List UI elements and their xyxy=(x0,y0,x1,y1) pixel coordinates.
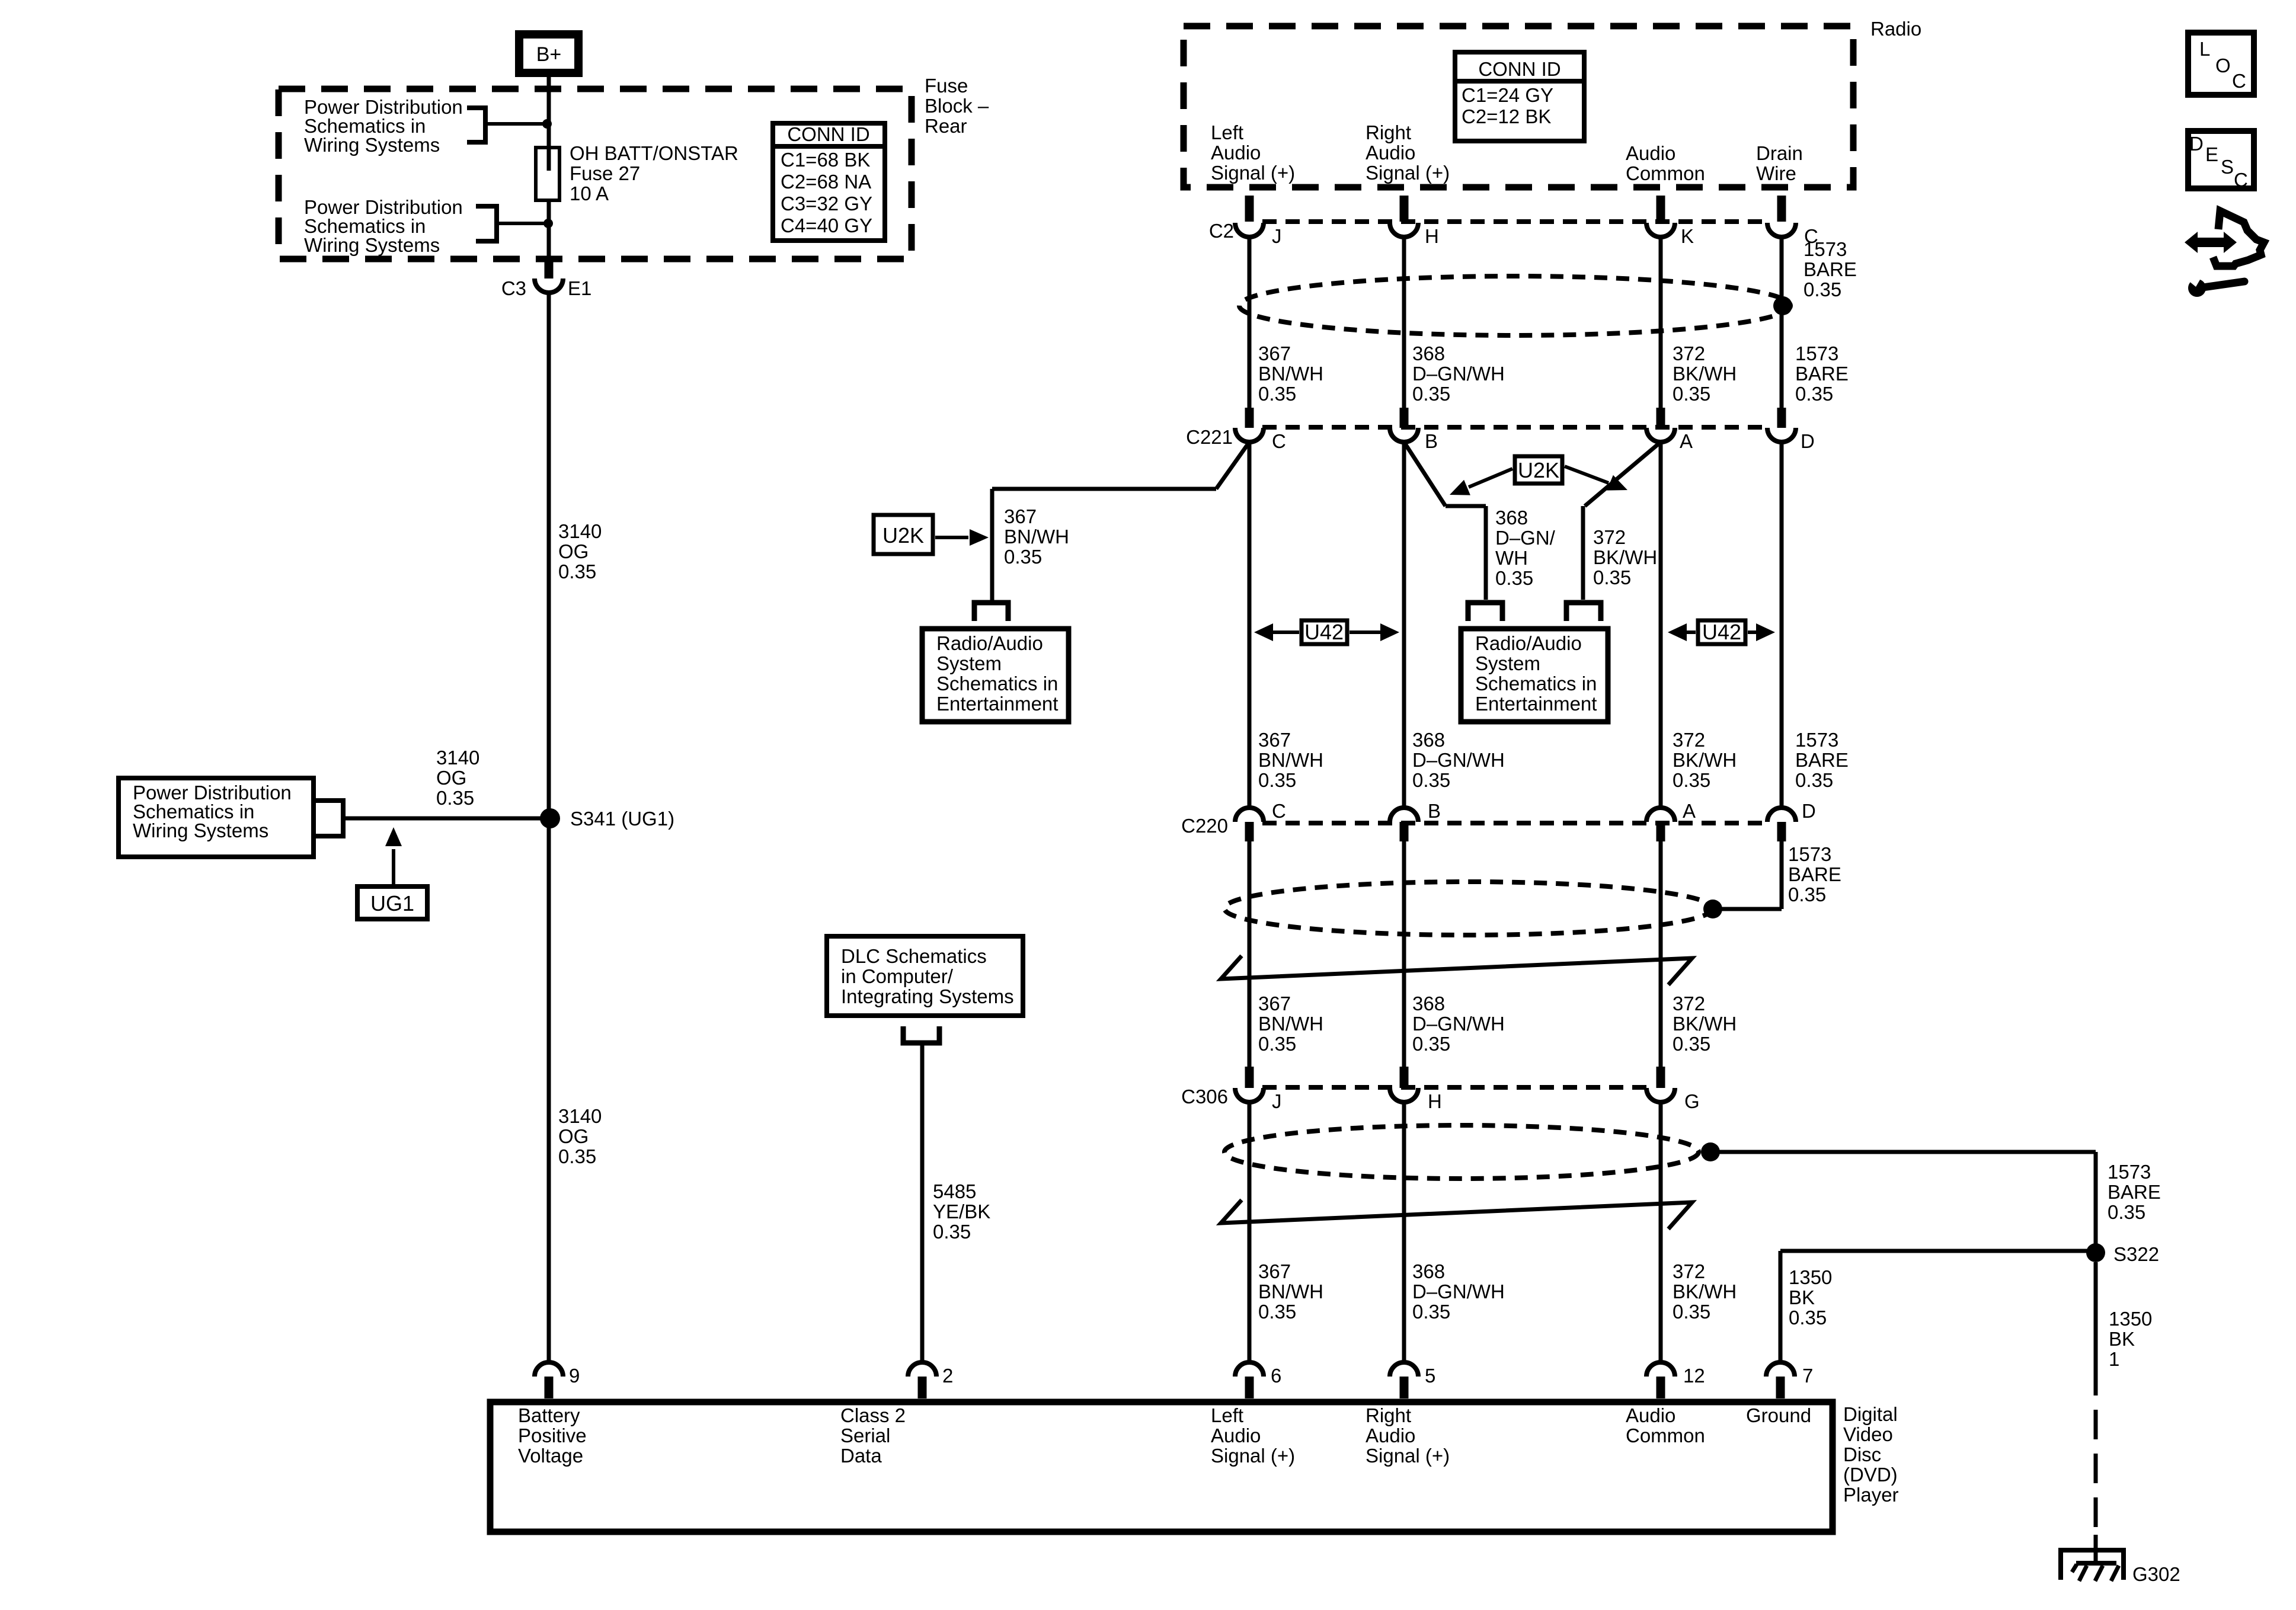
svg-text:372: 372 xyxy=(1673,993,1705,1014)
svg-text:Wiring Systems: Wiring Systems xyxy=(304,134,440,156)
svg-text:BN/WH: BN/WH xyxy=(1258,749,1323,771)
svg-text:(DVD): (DVD) xyxy=(1843,1464,1898,1486)
svg-text:1573: 1573 xyxy=(2108,1161,2151,1183)
svg-text:OG: OG xyxy=(436,767,466,789)
svg-text:J: J xyxy=(1272,1090,1282,1112)
svg-text:Left: Left xyxy=(1211,121,1243,143)
svg-text:5: 5 xyxy=(1425,1365,1435,1387)
svg-text:1350: 1350 xyxy=(1789,1266,1832,1288)
svg-text:System: System xyxy=(936,652,1002,674)
svg-text:Data: Data xyxy=(840,1445,882,1467)
svg-text:E1: E1 xyxy=(568,277,591,299)
svg-text:D: D xyxy=(1802,800,1816,822)
svg-text:BK: BK xyxy=(1789,1286,1815,1308)
svg-text:C306: C306 xyxy=(1181,1086,1228,1108)
svg-text:U2K: U2K xyxy=(1518,458,1559,482)
svg-text:Disc: Disc xyxy=(1843,1443,1881,1465)
svg-text:Common: Common xyxy=(1626,1425,1705,1446)
svg-text:D–GN/WH: D–GN/WH xyxy=(1412,749,1505,771)
svg-text:0.35: 0.35 xyxy=(1673,383,1710,405)
svg-text:Integrating Systems: Integrating Systems xyxy=(841,985,1014,1007)
svg-text:0.35: 0.35 xyxy=(1673,769,1710,791)
svg-text:C: C xyxy=(1272,800,1286,822)
svg-text:0.35: 0.35 xyxy=(2108,1201,2145,1223)
svg-text:D: D xyxy=(1801,430,1815,452)
svg-text:Fuse 27: Fuse 27 xyxy=(570,162,640,184)
svg-text:D–GN/WH: D–GN/WH xyxy=(1412,1281,1505,1302)
svg-text:C1=24 GY: C1=24 GY xyxy=(1462,84,1553,106)
svg-text:3140: 3140 xyxy=(558,520,602,542)
svg-text:C221: C221 xyxy=(1186,426,1233,448)
svg-text:U42: U42 xyxy=(1304,620,1344,644)
svg-text:Class 2: Class 2 xyxy=(840,1404,906,1426)
svg-text:Signal (+): Signal (+) xyxy=(1211,162,1295,184)
svg-text:Schematics in: Schematics in xyxy=(1475,673,1597,694)
svg-text:YE/BK: YE/BK xyxy=(933,1201,990,1222)
svg-text:D: D xyxy=(2189,133,2204,155)
svg-text:C2=68 NA: C2=68 NA xyxy=(781,171,871,193)
svg-text:Radio/Audio: Radio/Audio xyxy=(1475,632,1582,654)
svg-text:S: S xyxy=(2221,156,2234,178)
svg-text:10 A: 10 A xyxy=(570,183,609,204)
svg-text:0.35: 0.35 xyxy=(1258,1301,1296,1323)
svg-text:0.35: 0.35 xyxy=(1412,1301,1450,1323)
svg-text:K: K xyxy=(1681,225,1694,247)
svg-text:D–GN/: D–GN/ xyxy=(1495,527,1556,549)
svg-text:C: C xyxy=(2234,169,2248,191)
svg-text:G302: G302 xyxy=(2132,1563,2180,1585)
svg-text:C4=40 GY: C4=40 GY xyxy=(781,215,872,236)
svg-text:Battery: Battery xyxy=(518,1404,580,1426)
svg-text:H: H xyxy=(1428,1090,1442,1112)
svg-text:B: B xyxy=(1428,800,1441,822)
svg-text:L: L xyxy=(2199,38,2210,60)
svg-text:Common: Common xyxy=(1626,162,1705,184)
svg-text:0.35: 0.35 xyxy=(1795,383,1833,405)
svg-text:BARE: BARE xyxy=(1788,863,1841,885)
svg-text:372: 372 xyxy=(1593,526,1626,548)
svg-text:C3=32 GY: C3=32 GY xyxy=(781,193,872,215)
svg-text:BN/WH: BN/WH xyxy=(1258,1281,1323,1302)
svg-text:Audio: Audio xyxy=(1626,1404,1675,1426)
svg-text:9: 9 xyxy=(569,1365,580,1387)
svg-text:S322: S322 xyxy=(2113,1243,2159,1265)
svg-text:Rear: Rear xyxy=(925,115,967,137)
svg-text:Radio: Radio xyxy=(1870,18,1921,40)
svg-text:Wire: Wire xyxy=(1756,162,1796,184)
svg-text:C220: C220 xyxy=(1181,815,1228,837)
svg-text:0.35: 0.35 xyxy=(1412,383,1450,405)
svg-text:C: C xyxy=(1272,430,1286,452)
svg-text:Ground: Ground xyxy=(1746,1404,1811,1426)
svg-text:U2K: U2K xyxy=(882,523,924,548)
svg-text:368: 368 xyxy=(1412,1260,1445,1282)
svg-text:Signal (+): Signal (+) xyxy=(1366,1445,1450,1467)
svg-text:BARE: BARE xyxy=(1795,749,1849,771)
svg-text:Signal (+): Signal (+) xyxy=(1366,162,1450,184)
svg-text:WH: WH xyxy=(1495,547,1528,569)
svg-text:367: 367 xyxy=(1258,343,1291,364)
svg-text:367: 367 xyxy=(1258,1260,1291,1282)
svg-text:B+: B+ xyxy=(536,43,562,66)
svg-text:B: B xyxy=(1425,430,1438,452)
svg-text:372: 372 xyxy=(1673,1260,1705,1282)
svg-text:0.35: 0.35 xyxy=(1803,279,1841,300)
svg-text:G: G xyxy=(1684,1090,1700,1112)
svg-text:Audio: Audio xyxy=(1211,142,1261,164)
svg-text:Audio: Audio xyxy=(1366,142,1415,164)
svg-text:1573: 1573 xyxy=(1795,343,1838,364)
svg-text:BK: BK xyxy=(2109,1328,2135,1350)
svg-text:BK/WH: BK/WH xyxy=(1673,1013,1737,1035)
svg-text:0.35: 0.35 xyxy=(1593,566,1631,588)
svg-text:1350: 1350 xyxy=(2109,1308,2152,1330)
svg-text:368: 368 xyxy=(1495,507,1528,529)
svg-text:368: 368 xyxy=(1412,993,1445,1014)
svg-text:Right: Right xyxy=(1366,121,1411,143)
svg-text:Wiring Systems: Wiring Systems xyxy=(133,820,268,841)
svg-text:OG: OG xyxy=(558,540,589,562)
svg-text:BK/WH: BK/WH xyxy=(1673,1281,1737,1302)
svg-text:0.35: 0.35 xyxy=(1673,1033,1710,1055)
svg-text:0.35: 0.35 xyxy=(436,787,474,809)
svg-text:BK/WH: BK/WH xyxy=(1673,749,1737,771)
svg-text:C2=12 BK: C2=12 BK xyxy=(1462,105,1551,127)
svg-text:7: 7 xyxy=(1802,1365,1813,1387)
svg-text:Digital: Digital xyxy=(1843,1403,1898,1425)
svg-text:6: 6 xyxy=(1271,1365,1281,1387)
svg-text:372: 372 xyxy=(1673,343,1705,364)
svg-text:O: O xyxy=(2215,55,2231,76)
svg-text:S341 (UG1): S341 (UG1) xyxy=(570,808,674,830)
svg-text:0.35: 0.35 xyxy=(1795,769,1833,791)
svg-text:3140: 3140 xyxy=(436,747,479,769)
svg-text:367: 367 xyxy=(1004,505,1037,527)
svg-text:0.35: 0.35 xyxy=(558,1145,596,1167)
svg-text:368: 368 xyxy=(1412,729,1445,751)
svg-text:372: 372 xyxy=(1673,729,1705,751)
svg-text:0.35: 0.35 xyxy=(1412,1033,1450,1055)
svg-text:A: A xyxy=(1683,800,1696,822)
svg-text:BN/WH: BN/WH xyxy=(1258,363,1323,385)
svg-text:DLC Schematics: DLC Schematics xyxy=(841,945,987,967)
svg-text:0.35: 0.35 xyxy=(1495,567,1533,589)
svg-text:Audio: Audio xyxy=(1211,1425,1261,1446)
svg-text:CONN ID: CONN ID xyxy=(1478,58,1560,80)
svg-text:0.35: 0.35 xyxy=(1789,1307,1827,1329)
svg-text:C1=68 BK: C1=68 BK xyxy=(781,149,870,171)
svg-text:Left: Left xyxy=(1211,1404,1243,1426)
svg-text:E: E xyxy=(2205,143,2218,165)
svg-text:D–GN/WH: D–GN/WH xyxy=(1412,363,1505,385)
svg-text:0.35: 0.35 xyxy=(1258,383,1296,405)
svg-text:12: 12 xyxy=(1683,1365,1705,1387)
svg-text:BARE: BARE xyxy=(2108,1181,2161,1203)
svg-text:0.35: 0.35 xyxy=(1004,546,1042,568)
svg-text:BARE: BARE xyxy=(1795,363,1849,385)
svg-text:OG: OG xyxy=(558,1125,589,1147)
svg-text:1573: 1573 xyxy=(1803,238,1847,260)
svg-text:BK/WH: BK/WH xyxy=(1673,363,1737,385)
svg-text:0.35: 0.35 xyxy=(933,1221,971,1243)
svg-text:BN/WH: BN/WH xyxy=(1258,1013,1323,1035)
svg-text:U42: U42 xyxy=(1702,620,1741,644)
svg-text:H: H xyxy=(1425,225,1439,247)
svg-text:CONN ID: CONN ID xyxy=(787,123,869,145)
svg-text:C2: C2 xyxy=(1209,220,1234,242)
svg-text:Signal (+): Signal (+) xyxy=(1211,1445,1295,1467)
svg-text:D–GN/WH: D–GN/WH xyxy=(1412,1013,1505,1035)
svg-text:Schematics in: Schematics in xyxy=(936,673,1058,694)
svg-text:C: C xyxy=(2232,70,2246,92)
svg-text:367: 367 xyxy=(1258,993,1291,1014)
svg-text:1573: 1573 xyxy=(1795,729,1838,751)
svg-text:Audio: Audio xyxy=(1626,142,1675,164)
svg-text:in Computer/: in Computer/ xyxy=(841,965,954,987)
svg-text:1: 1 xyxy=(2109,1348,2119,1370)
svg-text:368: 368 xyxy=(1412,343,1445,364)
svg-text:Positive: Positive xyxy=(518,1425,587,1446)
svg-text:BK/WH: BK/WH xyxy=(1593,546,1657,568)
svg-text:Wiring Systems: Wiring Systems xyxy=(304,234,440,256)
svg-text:Drain: Drain xyxy=(1756,142,1803,164)
svg-text:3140: 3140 xyxy=(558,1105,602,1127)
svg-text:J: J xyxy=(1272,225,1282,247)
svg-text:Entertainment: Entertainment xyxy=(1475,693,1597,715)
svg-text:UG1: UG1 xyxy=(370,891,414,916)
svg-text:C3: C3 xyxy=(501,277,526,299)
svg-text:1573: 1573 xyxy=(1788,843,1831,865)
svg-text:Voltage: Voltage xyxy=(518,1445,583,1467)
svg-text:OH BATT/ONSTAR: OH BATT/ONSTAR xyxy=(570,142,738,164)
svg-text:A: A xyxy=(1680,430,1693,452)
svg-text:BN/WH: BN/WH xyxy=(1004,526,1069,548)
svg-text:367: 367 xyxy=(1258,729,1291,751)
svg-text:Audio: Audio xyxy=(1366,1425,1415,1446)
svg-text:0.35: 0.35 xyxy=(1258,1033,1296,1055)
svg-text:Radio/Audio: Radio/Audio xyxy=(936,632,1043,654)
svg-text:2: 2 xyxy=(942,1365,953,1387)
svg-text:Serial: Serial xyxy=(840,1425,890,1446)
svg-text:Fuse: Fuse xyxy=(925,75,968,97)
svg-text:Player: Player xyxy=(1843,1484,1899,1506)
svg-text:0.35: 0.35 xyxy=(558,561,596,582)
svg-text:Video: Video xyxy=(1843,1423,1893,1445)
svg-text:Block –: Block – xyxy=(925,95,989,117)
svg-text:Entertainment: Entertainment xyxy=(936,693,1058,715)
svg-text:0.35: 0.35 xyxy=(1258,769,1296,791)
svg-text:BARE: BARE xyxy=(1803,258,1857,280)
svg-text:0.35: 0.35 xyxy=(1788,884,1826,905)
svg-text:5485: 5485 xyxy=(933,1180,976,1202)
svg-text:System: System xyxy=(1475,652,1540,674)
svg-text:Right: Right xyxy=(1366,1404,1411,1426)
svg-text:0.35: 0.35 xyxy=(1673,1301,1710,1323)
svg-text:0.35: 0.35 xyxy=(1412,769,1450,791)
